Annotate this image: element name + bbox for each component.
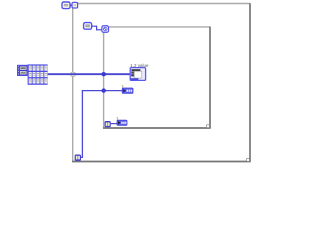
wire: array constant to node D xyxy=(48,73,131,75)
tunnel on outer loop border (wire1) xyxy=(71,72,75,76)
inner loop frame xyxy=(103,27,211,128)
2D array constant: element grid xyxy=(28,64,48,84)
tunnel on inner loop border (wire2) xyxy=(102,88,106,92)
tick label above local variable E xyxy=(122,85,123,88)
wire U1 to loop corner terminal xyxy=(70,4,73,6)
wire U2 to clock terminal xyxy=(92,26,102,30)
clock terminal U3 at inner loop corner xyxy=(102,26,109,33)
local variable H xyxy=(117,120,127,125)
outer while loop frame xyxy=(72,3,251,161)
vi icon U2 xyxy=(84,23,92,30)
outer loop bottom-right resize handle xyxy=(247,159,250,162)
wire: iteration terminal F up and right to local variable E xyxy=(81,91,123,158)
tunnel on inner loop border (wire1) xyxy=(102,72,106,76)
outer loop corner terminal xyxy=(72,2,78,8)
node D (index/property node) xyxy=(130,68,145,81)
reference constant icon U1 xyxy=(62,2,70,9)
tick label above local variable H xyxy=(117,117,118,120)
inner loop bottom-right resize handle xyxy=(207,125,210,128)
2D array constant: index block xyxy=(17,65,28,76)
wire G to local variable H xyxy=(111,123,117,125)
iteration terminal F (outer loop) xyxy=(75,155,81,161)
iteration terminal G (inner loop) xyxy=(105,121,111,127)
local variable E xyxy=(122,88,133,93)
